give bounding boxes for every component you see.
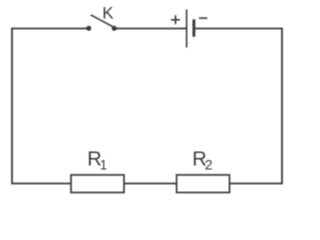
wire: bottom-left segment to resistor R1 [12,183,71,185]
switch contact dot left [86,26,91,31]
battery polarity label minus [199,17,207,19]
svg-text:K: K [102,4,114,23]
switch contact dot right [112,26,117,31]
wire: left vertical side [11,28,13,185]
resistor R1 [71,149,124,193]
battery [171,10,207,48]
wire: right vertical side [281,28,283,185]
resistor R1 body [71,175,124,193]
resistor R2 body [177,175,230,193]
switch lever (open, pivot at right contact) [91,15,113,27]
svg-text:2: 2 [205,156,213,172]
wire: between resistor R1 and resistor R2 [124,183,177,185]
battery short thick plate (negative) [192,19,195,36]
wire: top-left segment from corner to switch left contact [12,28,89,30]
resistor R2 [177,149,230,193]
battery long plate (positive) [186,10,188,48]
switch K [86,4,116,31]
wire: battery negative to top-right corner [195,28,282,30]
battery polarity label plus [171,15,180,24]
wire: between switch and battery positive plate [114,28,186,30]
svg-text:1: 1 [100,157,108,172]
wire: bottom-right segment to resistor R2 [230,183,283,185]
